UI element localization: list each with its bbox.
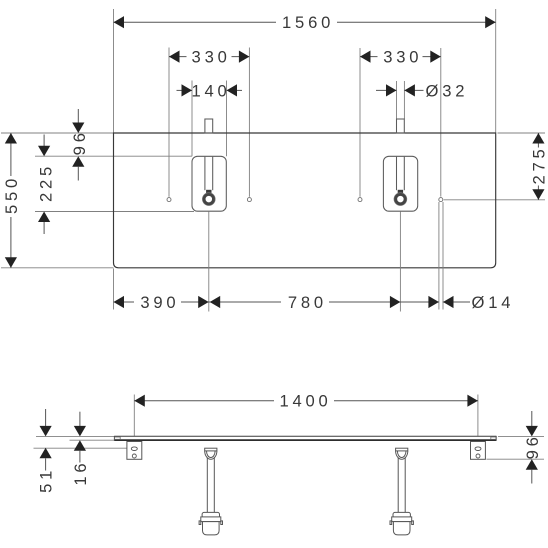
extension line 140 left [191,81,193,157]
tap hole rectangle right [397,119,405,133]
dimension 330 left [169,48,249,67]
svg-text:16: 16 [71,460,90,486]
dimension 390 / 780 / diameter 14 [114,293,515,312]
extension line 96 top right [498,435,544,437]
centre line left drain [208,211,210,311]
svg-text:225: 225 [36,163,55,202]
extension line 275 top [498,132,546,134]
dimension 330 right [360,48,441,67]
dimension 96 top view [70,109,89,181]
svg-text:780: 780 [288,293,327,312]
extension line 330-right outer [359,48,361,197]
extension line 275 bottom (hole centre) [444,199,545,201]
extension line 96/225 top (cutout top level) [35,155,192,157]
console plate elevation [114,436,496,441]
svg-text:51: 51 [37,467,56,493]
centre line right drain [399,211,401,311]
extension line 330-right inner [440,48,442,197]
drain ring left [203,193,216,206]
drain ring right [394,193,407,206]
slot right [396,157,398,191]
extension line 225 bottom (cutout bottom level) [35,211,194,213]
svg-text:330: 330 [192,48,231,67]
extension line plate top left [36,435,114,437]
bottle trap right [390,448,413,535]
extension line diameter14 left [438,202,440,310]
dimension 550 [2,133,21,268]
extension line 1400 right [477,395,479,442]
wall bracket left [127,442,142,460]
extension line 140 right [226,81,228,157]
tap hole rectangle left [205,119,213,133]
dimension 16 [71,412,90,486]
fixing hole right-inner [358,198,362,202]
extension line 550 top [1,132,114,134]
slot cap left [206,190,211,194]
plate end notch right [491,437,496,439]
extension line 330-left inner [248,48,250,197]
console plate top view [114,133,496,268]
dimension 275 [529,133,548,200]
svg-text:1400: 1400 [279,392,331,411]
dimension diameter 32 [376,81,468,100]
basin cutout right [383,156,417,211]
svg-text:1560: 1560 [282,13,334,32]
bottle trap left [199,448,222,535]
dimension 51 [37,409,56,493]
extension line 1560 left [113,9,115,133]
dimension 140 [177,81,243,100]
dimension 1560 [114,13,496,32]
svg-text:275: 275 [529,145,548,184]
dimension 1400 [134,392,478,411]
slot cap right [398,190,403,194]
plate end notch left [115,437,121,439]
wall bracket right [471,442,486,460]
fixing hole right-outer [439,198,443,202]
extension line 1400 left [133,395,135,442]
basin cutout left [192,156,226,211]
slot left [204,157,206,191]
svg-text:140: 140 [191,81,230,100]
extension line 550 bottom [1,267,114,269]
extension line diameter32 right [403,81,405,119]
svg-text:390: 390 [140,293,179,312]
svg-text:550: 550 [2,175,21,214]
extension line 1560 right [495,9,497,133]
extension line 51 bottom (bracket slot level) [34,447,127,449]
fixing hole left-outer [167,198,171,202]
extension line 330-left outer [168,48,170,197]
fixing hole left-inner [247,198,251,202]
dimension 96 elevation [523,411,542,484]
svg-text:Ø14: Ø14 [472,293,515,312]
extension line diameter32 left [396,81,398,119]
svg-text:Ø32: Ø32 [426,81,469,100]
extension line 390 left (plate edge) [113,269,115,310]
dimension 225 [36,135,55,235]
svg-text:96: 96 [523,433,542,459]
extension line 96 bottom right (bracket bottom) [487,458,545,460]
svg-text:96: 96 [70,129,89,155]
svg-text:330: 330 [383,48,422,67]
extension line plate bottom left [70,439,115,441]
extension line diameter14 right [442,202,444,310]
